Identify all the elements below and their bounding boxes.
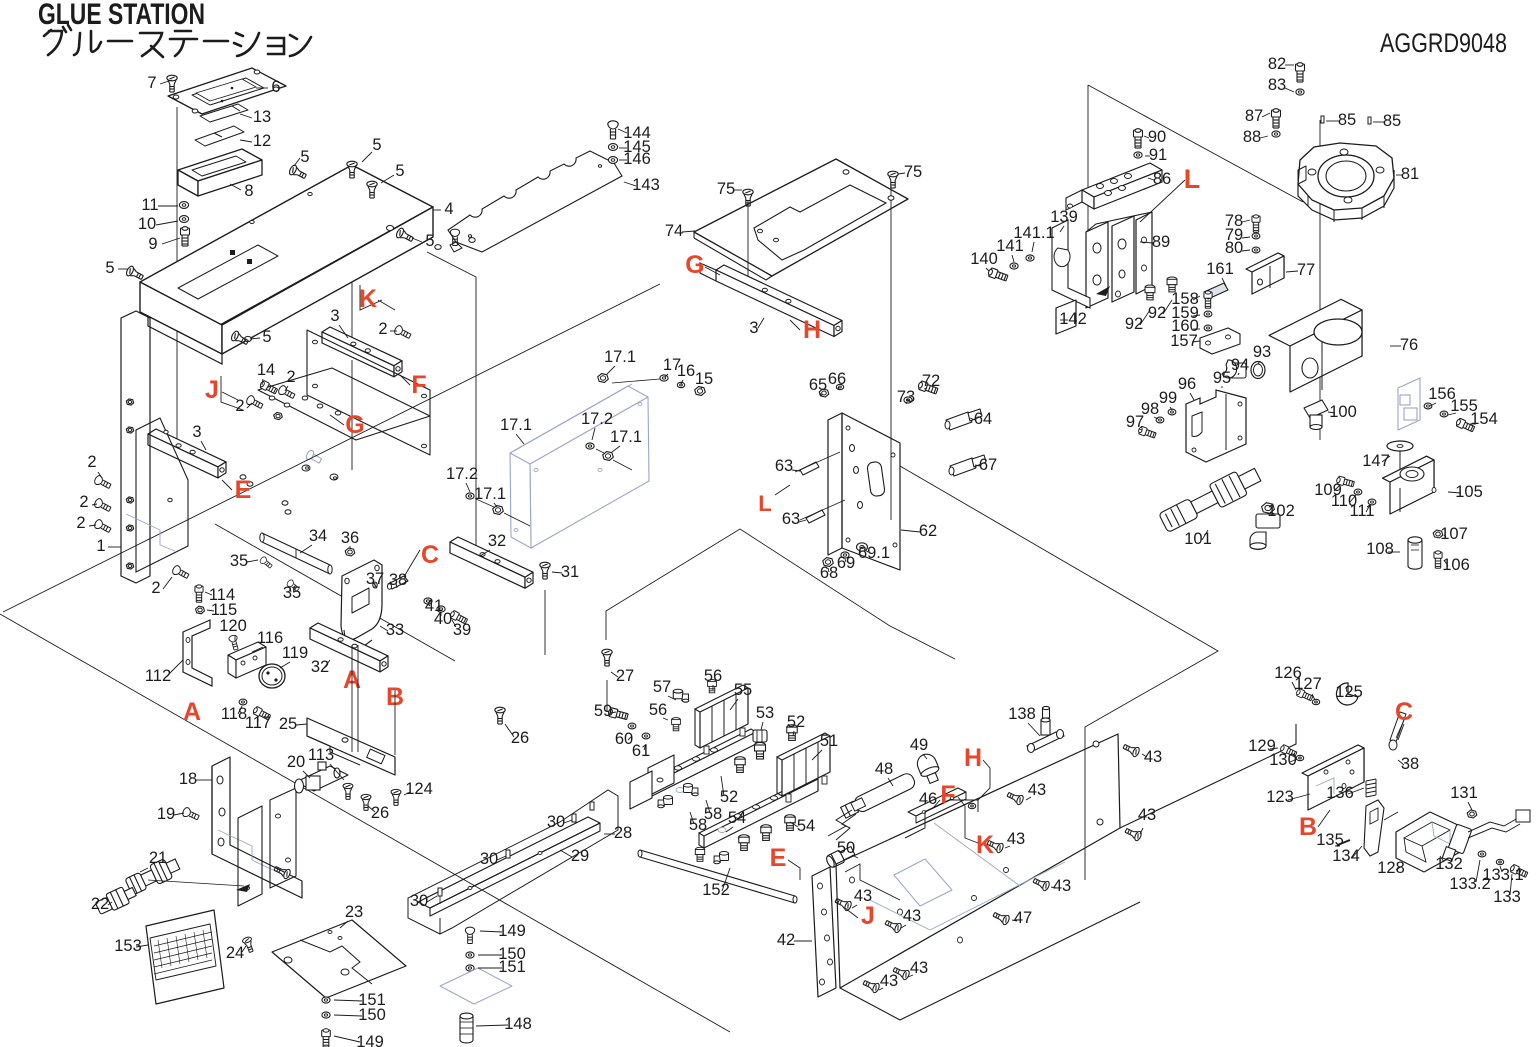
svg-text:65: 65 — [809, 376, 827, 394]
block 123 — [1358, 745, 1364, 782]
screw 26 a — [361, 794, 371, 810]
bracket 33 — [341, 560, 382, 640]
svg-text:69.1: 69.1 — [858, 544, 890, 562]
screw 129 — [1279, 744, 1297, 758]
svg-text:111: 111 — [1349, 502, 1374, 520]
svg-text:118: 118 — [221, 705, 247, 723]
svg-text:82: 82 — [1268, 55, 1286, 73]
rail 29 — [418, 817, 600, 908]
svg-text:1: 1 — [96, 537, 105, 555]
svg-text:F: F — [411, 371, 426, 399]
svg-text:112: 112 — [145, 667, 171, 685]
svg-text:50: 50 — [837, 839, 855, 857]
washer 159 — [1204, 311, 1212, 317]
washer 145 — [608, 144, 617, 151]
svg-text:130: 130 — [1269, 751, 1297, 769]
screw 158 — [1204, 291, 1212, 308]
svg-text:26: 26 — [371, 804, 389, 822]
block 105 — [1427, 456, 1435, 492]
plate 6 — [168, 68, 286, 114]
screw 9 — [181, 227, 190, 246]
cap 56 a — [708, 680, 717, 693]
screw 31 — [540, 562, 550, 579]
washer 149 b — [465, 927, 474, 943]
panel 42 — [812, 867, 836, 997]
washer 111 — [1368, 499, 1376, 505]
screw 78 — [1252, 215, 1260, 232]
svg-text:72: 72 — [922, 372, 940, 390]
pin 38 b — [1390, 712, 1406, 742]
screw 26 c — [495, 707, 505, 724]
washer 99 — [1168, 409, 1176, 415]
svg-text:43: 43 — [1144, 748, 1162, 766]
plate 25 — [307, 718, 395, 775]
washer 83 — [1296, 89, 1304, 95]
svg-text:32: 32 — [311, 658, 329, 676]
blue dot b — [153, 280, 159, 284]
svg-text:80: 80 — [1225, 239, 1243, 257]
fit 54 b — [761, 825, 771, 841]
svg-text:J: J — [205, 376, 219, 404]
blue pcb — [1398, 378, 1420, 430]
bar 3 H — [716, 265, 842, 326]
fit 50 — [825, 845, 856, 869]
svg-text:12: 12 — [253, 132, 271, 150]
svg-text:56: 56 — [704, 667, 722, 685]
nut 68 — [823, 558, 834, 567]
svg-text:19: 19 — [157, 805, 175, 823]
nut 17.1 b — [603, 452, 614, 461]
screw 124 — [391, 789, 401, 805]
washer 17.2 b — [586, 443, 594, 449]
screw 5 f — [230, 330, 250, 347]
washer 80 — [1252, 247, 1260, 253]
washer 146 — [608, 157, 617, 164]
svg-text:77: 77 — [1297, 261, 1315, 279]
svg-text:142: 142 — [1059, 310, 1087, 328]
svg-text:136: 136 — [1326, 784, 1354, 802]
plate 23 — [272, 920, 406, 998]
cyl 94 — [1227, 363, 1247, 378]
svg-text:43: 43 — [903, 907, 921, 925]
panel 62 — [828, 413, 842, 555]
svg-text:74: 74 — [665, 222, 683, 240]
holes mid — [240, 475, 246, 479]
washer 79 — [1252, 233, 1260, 239]
svg-text:48: 48 — [875, 760, 893, 778]
pin 63 a — [800, 462, 819, 475]
washer 130 — [1296, 755, 1303, 760]
panel F — [307, 330, 430, 455]
svg-text:141: 141 — [996, 237, 1024, 255]
svg-text:2: 2 — [151, 579, 160, 597]
svg-text:H: H — [803, 316, 821, 344]
screw 82 — [1296, 63, 1305, 82]
screw 43 #6 — [1122, 742, 1141, 758]
svg-text:43: 43 — [854, 887, 872, 905]
screw 5 d — [395, 227, 415, 244]
svg-text:3: 3 — [749, 319, 758, 337]
svg-text:94: 94 — [1231, 356, 1249, 374]
screw 19 b — [273, 864, 292, 880]
svg-text:73: 73 — [897, 388, 915, 406]
svg-text:42: 42 — [777, 931, 795, 949]
washer 150 a — [322, 1012, 330, 1018]
screw 154 — [1455, 418, 1475, 433]
plate G — [258, 368, 430, 440]
block 128 — [1396, 812, 1460, 872]
svg-text:63: 63 — [775, 457, 793, 475]
svg-text:11: 11 — [141, 196, 158, 214]
svg-text:2: 2 — [76, 514, 85, 532]
svg-text:146: 146 — [623, 150, 651, 168]
screw 43 #8 — [1032, 876, 1051, 892]
disc 147 — [1387, 441, 1413, 451]
svg-text:5: 5 — [395, 162, 404, 180]
svg-text:120: 120 — [219, 617, 247, 635]
svg-text:64: 64 — [974, 410, 992, 428]
screw 135 — [1337, 840, 1350, 846]
screw 106 — [1434, 551, 1442, 568]
fitting 92 a — [1145, 285, 1155, 300]
screw 27 — [602, 649, 612, 666]
svg-text:7: 7 — [147, 74, 156, 92]
svg-text:30: 30 — [480, 850, 498, 868]
svg-text:89: 89 — [1152, 233, 1170, 251]
screw 43 #3 — [862, 978, 881, 994]
cring 95 — [1222, 360, 1237, 378]
shaft 34 — [262, 533, 330, 574]
svg-text:100: 100 — [1329, 403, 1357, 421]
svg-text:3: 3 — [330, 307, 339, 325]
svg-text:14: 14 — [257, 361, 275, 379]
svg-text:29: 29 — [571, 847, 589, 865]
svg-text:4: 4 — [444, 200, 453, 218]
screw 2 g1 — [277, 385, 296, 401]
washer 133.1 — [1496, 859, 1503, 864]
screw 109 — [1336, 476, 1355, 488]
plate 74 — [694, 159, 908, 276]
fit 54 a — [739, 835, 749, 851]
svg-text:5: 5 — [105, 259, 114, 277]
washer 69.1 — [857, 543, 868, 551]
svg-text:161: 161 — [1206, 260, 1234, 278]
rod 152 — [640, 850, 795, 903]
nut g1 — [274, 412, 283, 419]
svg-text:57: 57 — [653, 678, 671, 696]
svg-text:17.2: 17.2 — [581, 410, 613, 428]
svg-text:3: 3 — [192, 423, 201, 441]
svg-text:47: 47 — [1014, 909, 1032, 927]
bracket 112 — [183, 620, 212, 686]
spring 136 — [1366, 779, 1376, 781]
cyl 108 — [1408, 537, 1422, 569]
svg-text:67: 67 — [979, 456, 997, 474]
washer 98 — [1156, 417, 1164, 423]
cyl 48 — [840, 771, 917, 820]
svg-text:31: 31 — [561, 563, 579, 581]
svg-text:33: 33 — [386, 621, 404, 639]
svg-text:8: 8 — [244, 182, 253, 200]
nut 17.1 a — [598, 374, 609, 383]
svg-text:133.1: 133.1 — [1482, 866, 1523, 884]
washer 151 a — [322, 997, 330, 1003]
screw 72 — [917, 380, 938, 395]
svg-text:G: G — [345, 411, 364, 439]
svg-text:75: 75 — [717, 180, 735, 198]
svg-text:86: 86 — [1153, 170, 1171, 188]
screw 2 e1 — [93, 475, 112, 491]
screw 133 — [1509, 864, 1528, 879]
washer 10 — [179, 216, 188, 223]
washer 156 — [1424, 403, 1432, 409]
svg-text:2: 2 — [87, 453, 96, 471]
svg-text:52: 52 — [720, 788, 738, 806]
bracket 139 — [1052, 220, 1090, 308]
svg-text:L: L — [758, 491, 771, 516]
screw 2 c — [450, 229, 459, 245]
tee 138 — [1027, 706, 1064, 752]
elbow 102 — [1250, 503, 1280, 550]
elbow 49 — [914, 751, 942, 785]
screw 114 — [195, 585, 203, 602]
screw 2 e2 — [93, 498, 112, 514]
nut 36 — [345, 548, 355, 556]
svg-text:85: 85 — [1338, 111, 1356, 129]
title text katakana — [44, 25, 311, 57]
svg-text:AGGRD9048: AGGRD9048 — [1380, 28, 1507, 58]
block 89 — [1086, 222, 1108, 308]
svg-text:32: 32 — [488, 532, 506, 550]
svg-text:101: 101 — [1184, 530, 1212, 548]
svg-text:26: 26 — [511, 729, 529, 747]
svg-text:54: 54 — [728, 809, 746, 827]
svg-text:61: 61 — [632, 742, 650, 760]
svg-text:131: 131 — [1450, 784, 1478, 802]
screw 90 — [1134, 129, 1143, 148]
svg-text:43: 43 — [1053, 877, 1071, 895]
washer 141.1 — [1026, 255, 1034, 261]
svg-text:134: 134 — [1332, 847, 1360, 865]
washer 133.2 — [1478, 851, 1486, 857]
fitting 64 — [946, 412, 972, 430]
fitting 67 — [950, 458, 976, 476]
sensor 132 — [1442, 824, 1472, 861]
washer 17 a — [660, 375, 668, 381]
ring mount 81 — [1298, 143, 1394, 210]
svg-text:91: 91 — [1149, 146, 1167, 164]
leader 63 — [795, 452, 840, 472]
pin 37 — [373, 582, 377, 588]
svg-text:88: 88 — [1243, 128, 1261, 146]
svg-text:H: H — [964, 744, 982, 772]
svg-text:43: 43 — [1007, 830, 1025, 848]
svg-text:27: 27 — [616, 667, 634, 685]
washer 150 b — [466, 952, 474, 958]
panel 18 — [212, 757, 302, 898]
sticker 153 — [146, 910, 224, 1004]
pin 161 — [1204, 283, 1228, 299]
svg-text:E: E — [770, 844, 787, 872]
svg-text:5: 5 — [300, 148, 309, 166]
red leaders — [222, 180, 1404, 918]
washer 69 — [841, 552, 849, 558]
svg-text:L: L — [1184, 164, 1201, 194]
screw 144 — [608, 121, 618, 139]
roller 119 — [259, 664, 285, 688]
screw 35 a — [259, 556, 273, 570]
svg-text:81: 81 — [1401, 165, 1419, 183]
screw 2 e3 — [93, 519, 112, 535]
bracket J — [221, 376, 243, 410]
svg-text:20: 20 — [287, 753, 305, 771]
svg-text:2: 2 — [378, 320, 387, 338]
blue line panel1 — [126, 514, 175, 551]
svg-text:153: 153 — [114, 937, 142, 955]
svg-text:46: 46 — [919, 790, 937, 808]
screw 59 — [608, 707, 629, 721]
fitting 20 — [295, 762, 349, 793]
screw 2 f1 — [393, 325, 412, 341]
slab 4 — [140, 165, 433, 325]
strip 143 — [448, 151, 622, 252]
svg-text:43: 43 — [1028, 781, 1046, 799]
svg-text:37: 37 — [366, 570, 384, 588]
svg-text:43: 43 — [880, 972, 898, 990]
svg-text:30: 30 — [410, 892, 428, 910]
screw 14 — [259, 380, 278, 395]
nut 17.1 c — [493, 506, 504, 515]
washer 61 — [642, 733, 650, 739]
svg-text:69: 69 — [837, 554, 855, 572]
plate 13 — [200, 104, 248, 122]
washer 73 — [904, 397, 912, 403]
pin 30 a — [438, 888, 442, 896]
blue dot a — [309, 188, 315, 192]
svg-text:116: 116 — [257, 629, 283, 647]
washer 91 — [1134, 152, 1142, 158]
screw 140 — [987, 267, 1008, 282]
svg-text:119: 119 — [282, 644, 308, 662]
washer 155 — [1440, 411, 1448, 417]
svg-text:106: 106 — [1442, 556, 1470, 574]
svg-text:149: 149 — [498, 922, 526, 940]
svg-text:K: K — [359, 285, 377, 313]
svg-text:25: 25 — [279, 715, 297, 733]
screw 87 — [1272, 109, 1281, 128]
svg-text:35: 35 — [283, 584, 301, 602]
washer f — [245, 336, 252, 341]
block 96 — [1186, 390, 1246, 462]
svg-text:102: 102 — [1267, 502, 1295, 520]
bar 3 E — [148, 429, 226, 467]
svg-text:9: 9 — [148, 235, 157, 253]
wire phantom outlines — [0, 85, 1320, 1032]
svg-text:125: 125 — [1335, 683, 1363, 701]
svg-text:148: 148 — [504, 1015, 532, 1033]
screw 149 a — [322, 1029, 331, 1047]
svg-text:105: 105 — [1455, 483, 1483, 501]
washer 88 — [1272, 131, 1280, 137]
tee 58 b — [684, 784, 699, 796]
screw 5 a — [288, 164, 308, 181]
screw 43 #1 — [884, 918, 903, 934]
pin 30 d — [590, 802, 594, 810]
svg-text:43: 43 — [910, 959, 928, 977]
svg-text:30: 30 — [547, 813, 565, 831]
nut 131 — [1467, 810, 1477, 818]
screw 113 — [343, 783, 353, 799]
svg-text:2: 2 — [286, 368, 295, 386]
washer d — [387, 225, 394, 230]
svg-text:59: 59 — [594, 702, 612, 720]
pin 30 c — [572, 814, 576, 822]
bracket 157 — [1200, 328, 1240, 354]
svg-text:6: 6 — [271, 78, 280, 96]
svg-text:95: 95 — [1213, 369, 1231, 387]
bar 3 F — [322, 327, 402, 366]
svg-text:97: 97 — [1126, 413, 1144, 431]
svg-text:38: 38 — [389, 571, 407, 589]
pin 63 b — [806, 510, 825, 523]
svg-text:K: K — [976, 831, 994, 859]
plate 116 — [228, 642, 266, 660]
fit 54 c — [785, 815, 795, 831]
svg-text:E: E — [235, 476, 252, 504]
panel 1 — [121, 311, 150, 583]
screw 5 e — [125, 265, 145, 282]
washer 11 — [179, 202, 188, 209]
screw 126 — [1295, 688, 1313, 702]
screw 43 #7 — [1124, 826, 1143, 842]
pin 85 b — [1368, 117, 1371, 124]
screw 2 e4 — [171, 565, 190, 581]
screw 5 b — [347, 161, 357, 178]
svg-text:24: 24 — [226, 944, 244, 962]
svg-text:51: 51 — [820, 732, 838, 750]
svg-text:92: 92 — [1125, 315, 1143, 333]
svg-text:38: 38 — [1401, 755, 1419, 773]
holes G — [269, 396, 275, 400]
svg-text:21: 21 — [149, 849, 167, 867]
screw 43 #2 — [892, 965, 911, 981]
screw 47 — [992, 910, 1011, 926]
screw 43 #5 — [986, 838, 1005, 854]
washer 141 — [1010, 263, 1018, 269]
screw 7 — [167, 75, 177, 92]
assy 101 — [1157, 463, 1263, 534]
washer 118 — [239, 699, 247, 705]
nut 65 — [819, 389, 829, 397]
svg-text:J: J — [861, 902, 875, 930]
conn 22 — [94, 883, 138, 916]
svg-text:93: 93 — [1253, 343, 1271, 361]
big panel — [836, 734, 1120, 988]
washer 66 — [836, 384, 843, 389]
plate 18b — [270, 788, 296, 888]
conn 21 — [124, 854, 182, 896]
svg-text:C: C — [421, 541, 439, 569]
washer 60 — [628, 723, 636, 729]
svg-text:83: 83 — [1268, 76, 1286, 94]
standoff 148 — [460, 1013, 473, 1043]
plate 86 — [1082, 163, 1162, 197]
svg-text:62: 62 — [919, 522, 937, 540]
svg-text:113: 113 — [308, 746, 334, 764]
svg-text:149: 149 — [356, 1033, 384, 1047]
block 77 — [1278, 253, 1284, 278]
bracket K — [360, 285, 382, 310]
